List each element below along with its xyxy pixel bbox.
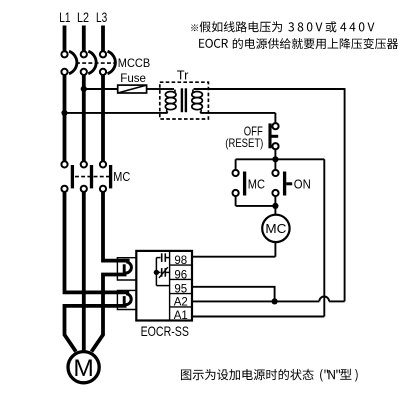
svg-text:A2: A2 <box>174 297 188 309</box>
svg-text:L2: L2 <box>77 9 89 25</box>
svg-text:MC: MC <box>265 221 286 236</box>
svg-text:Fuse: Fuse <box>120 73 146 85</box>
svg-text:MC: MC <box>113 169 130 184</box>
svg-text:MCCB: MCCB <box>118 58 151 70</box>
svg-text:L3: L3 <box>96 9 107 25</box>
svg-text:MC: MC <box>248 177 266 192</box>
svg-text:ON: ON <box>294 177 311 192</box>
svg-text:L1: L1 <box>59 9 70 25</box>
svg-text:(RESET): (RESET) <box>225 136 263 150</box>
svg-text:Tr: Tr <box>177 67 189 82</box>
svg-text:98: 98 <box>174 255 187 267</box>
svg-text:EOCR-SS: EOCR-SS <box>141 323 189 339</box>
svg-text:M: M <box>73 355 93 382</box>
svg-text:A1: A1 <box>174 310 188 322</box>
svg-text:96: 96 <box>174 269 187 281</box>
svg-text:95: 95 <box>174 284 187 296</box>
